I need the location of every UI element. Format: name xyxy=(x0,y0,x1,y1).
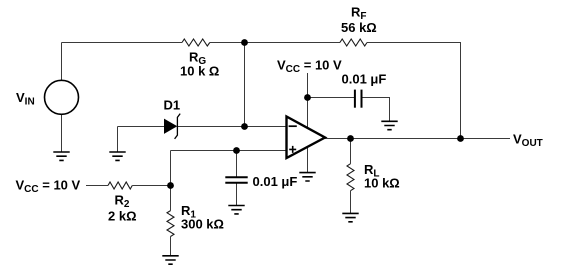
svg-text:56 kΩ: 56 kΩ xyxy=(341,20,377,35)
svg-text:0.01 μF: 0.01 μF xyxy=(342,72,387,87)
svg-text:300 kΩ: 300 kΩ xyxy=(181,217,224,232)
svg-text:0.01 μF: 0.01 μF xyxy=(253,174,298,189)
svg-text:D1: D1 xyxy=(164,98,181,113)
svg-text:10 k Ω: 10 k Ω xyxy=(180,64,219,79)
svg-text:2 kΩ: 2 kΩ xyxy=(108,209,137,224)
svg-text:10 kΩ: 10 kΩ xyxy=(364,176,400,191)
